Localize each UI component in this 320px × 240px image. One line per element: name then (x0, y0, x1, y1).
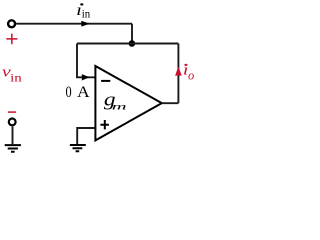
wire left vertical to inverting input (77, 44, 95, 78)
minus sign (inverting input marker) (101, 80, 110, 82)
wire stem to ground (12, 126, 14, 144)
minus polarity mark (red) (8, 111, 16, 113)
terminal T1 (input + terminal) (8, 20, 15, 27)
svg-text:0: 0 (66, 83, 72, 101)
arrowhead 0A (into inverting input) (82, 74, 90, 80)
arrowhead i_in on top wire (81, 21, 89, 27)
plus polarity mark (red) (6, 34, 17, 45)
wire vertical drop to node (131, 24, 133, 44)
op-amp U1 triangle (95, 66, 161, 140)
wire mid horizontal (77, 43, 178, 45)
wire top (input to node) (16, 23, 132, 25)
plus sign (non-inverting input marker) (100, 120, 109, 129)
wire right vertical (output branch) (177, 44, 179, 104)
svg-text:in: in (10, 71, 22, 84)
wire output (apex to right branch) (162, 102, 179, 104)
svg-text:m: m (112, 102, 127, 112)
svg-text:A: A (77, 83, 90, 101)
ground G2 (op-amp + input) (70, 145, 86, 151)
svg-text:o: o (188, 69, 194, 83)
node junction dot (129, 40, 136, 47)
terminal T2 (input - terminal) (9, 119, 16, 126)
wire non-inverting input to ground (77, 128, 95, 144)
svg-text:in: in (82, 8, 91, 21)
ground G1 (input port) (5, 145, 21, 152)
arrowhead i_o (red, up) (175, 66, 182, 75)
